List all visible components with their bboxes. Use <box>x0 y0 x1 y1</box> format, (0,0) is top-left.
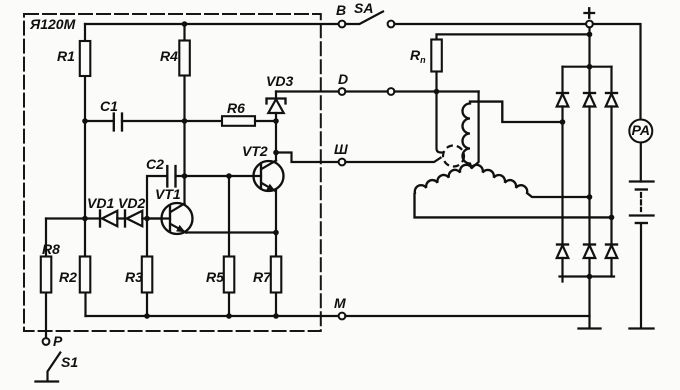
ground bar generator <box>579 327 601 329</box>
switch S1 <box>48 353 79 381</box>
wire Ш to rotor brush <box>345 158 440 162</box>
wire D to rotor brush <box>437 92 444 153</box>
wire top rail from R1 to terminal B <box>85 23 339 25</box>
resistor R5 <box>206 176 234 316</box>
resistor R8 <box>41 219 60 339</box>
ground bar battery <box>630 327 654 329</box>
node R3 bottom junction <box>144 313 150 319</box>
terminal M <box>334 295 346 319</box>
node R1/VD1 junction <box>82 216 88 222</box>
resistor Rn <box>410 34 590 91</box>
node R7 bottom junction <box>273 313 279 319</box>
svg-text:VT1: VT1 <box>155 186 181 202</box>
wire SA to plus terminal <box>394 23 586 25</box>
svg-text:R2: R2 <box>59 269 77 285</box>
diode VD7 lower left <box>557 245 569 282</box>
wire rectifier cathode rail <box>563 66 612 68</box>
node Rn / plus vertical junction <box>587 32 593 38</box>
diode VD6 upper right <box>606 67 618 245</box>
diode VD4 upper left <box>557 67 569 245</box>
node R4/R6 line junction <box>182 118 188 124</box>
node R4 top junction <box>182 21 188 27</box>
svg-text:Ш: Ш <box>334 141 348 157</box>
node D line / Rn junction <box>434 89 440 95</box>
diode VD9 lower right <box>606 245 618 277</box>
wire plus vertical to rectifier cathode rail <box>588 27 590 66</box>
diode VD2 <box>118 195 145 227</box>
node R5 bottom junction <box>226 313 232 319</box>
capacitor C1 <box>85 98 222 131</box>
connector circle on D line <box>388 88 395 95</box>
svg-text:S1: S1 <box>61 354 78 370</box>
svg-text:R5: R5 <box>206 269 224 285</box>
ammeter PA <box>629 120 652 143</box>
svg-text:R3: R3 <box>125 269 143 285</box>
stator phase 2 winding <box>415 165 612 218</box>
resistor R1 <box>57 24 90 257</box>
node R6/VD3 junction <box>273 118 279 124</box>
svg-text:R4: R4 <box>160 48 178 64</box>
diode VD5 upper middle <box>584 67 596 245</box>
resistor R6 <box>222 100 276 126</box>
svg-text:VT2: VT2 <box>242 143 268 159</box>
svg-text:P: P <box>53 333 63 349</box>
wire VD3 to terminal D <box>276 90 339 92</box>
svg-text:R8: R8 <box>42 241 60 257</box>
terminal Ш <box>334 141 348 165</box>
capacitor C2 <box>146 156 261 219</box>
terminal D <box>338 71 348 95</box>
battery GB <box>630 143 654 329</box>
wire D line to star point feed <box>345 90 478 92</box>
wire anode rail to ground <box>588 277 590 329</box>
svg-text:PA: PA <box>632 122 650 138</box>
svg-text:C2: C2 <box>146 156 164 172</box>
node VD3/VT2 collector junction <box>273 150 279 156</box>
node VT1 base / R3 / C2 junction <box>144 216 150 222</box>
terminal P <box>43 333 63 349</box>
wire bottom rail to terminal M <box>86 315 339 317</box>
resistor R7 <box>253 257 281 317</box>
node R5 top junction <box>226 173 232 179</box>
diode VD1 <box>87 195 117 227</box>
svg-text:VD3: VD3 <box>266 73 293 89</box>
node cathode rail junction <box>587 64 593 70</box>
wire VT1 emitter to VT2 emitter rail <box>186 231 276 233</box>
switch SA <box>345 0 394 27</box>
rotor slip rings <box>443 146 464 167</box>
terminal plus <box>585 8 595 27</box>
svg-text:Я120М: Я120М <box>29 16 76 32</box>
node phase 1 tap <box>560 119 566 125</box>
stator phase 1 winding <box>463 102 563 168</box>
node phase 2 tap <box>609 215 615 221</box>
svg-text:VD1: VD1 <box>87 195 114 211</box>
node R1/C1 junction <box>82 118 88 124</box>
wire rectifier anode rail <box>560 275 615 277</box>
ground bar under S1 <box>36 380 59 382</box>
zener diode VD3 <box>266 73 293 153</box>
svg-text:R1: R1 <box>57 48 75 64</box>
svg-text:SA: SA <box>354 0 373 16</box>
svg-text:VD2: VD2 <box>118 195 145 211</box>
transistor VT1 <box>147 186 193 234</box>
wire plus to ammeter branch <box>593 24 641 120</box>
svg-text:C1: C1 <box>100 98 118 114</box>
wire M to ground branch <box>345 315 589 317</box>
svg-text:B: B <box>336 2 346 18</box>
node phase 3 tap <box>587 194 593 200</box>
resistor R2 <box>59 257 90 317</box>
wire D feed down to star point <box>472 92 479 168</box>
svg-text:Rn: Rn <box>410 47 426 65</box>
terminal B <box>336 2 346 27</box>
diode VD8 lower middle <box>584 245 596 277</box>
node emitter rail / R7 junction <box>273 230 279 236</box>
svg-text:R6: R6 <box>227 100 245 116</box>
svg-text:M: M <box>334 295 346 311</box>
stator phase 3 winding <box>472 165 590 197</box>
regulator box Я120М dashed border <box>24 14 321 331</box>
resistor R4 <box>160 24 190 204</box>
wire VT1 base line with VD1 VD2 <box>46 217 162 219</box>
node anode rail junction <box>587 274 593 280</box>
transistor VT2 <box>242 143 284 257</box>
node R4/VT2 base line junction <box>182 173 188 179</box>
resistor R3 <box>125 219 152 317</box>
wire VT2 collector jog to terminal Ш <box>276 153 339 163</box>
svg-text:D: D <box>338 71 348 87</box>
svg-text:R7: R7 <box>253 269 272 285</box>
